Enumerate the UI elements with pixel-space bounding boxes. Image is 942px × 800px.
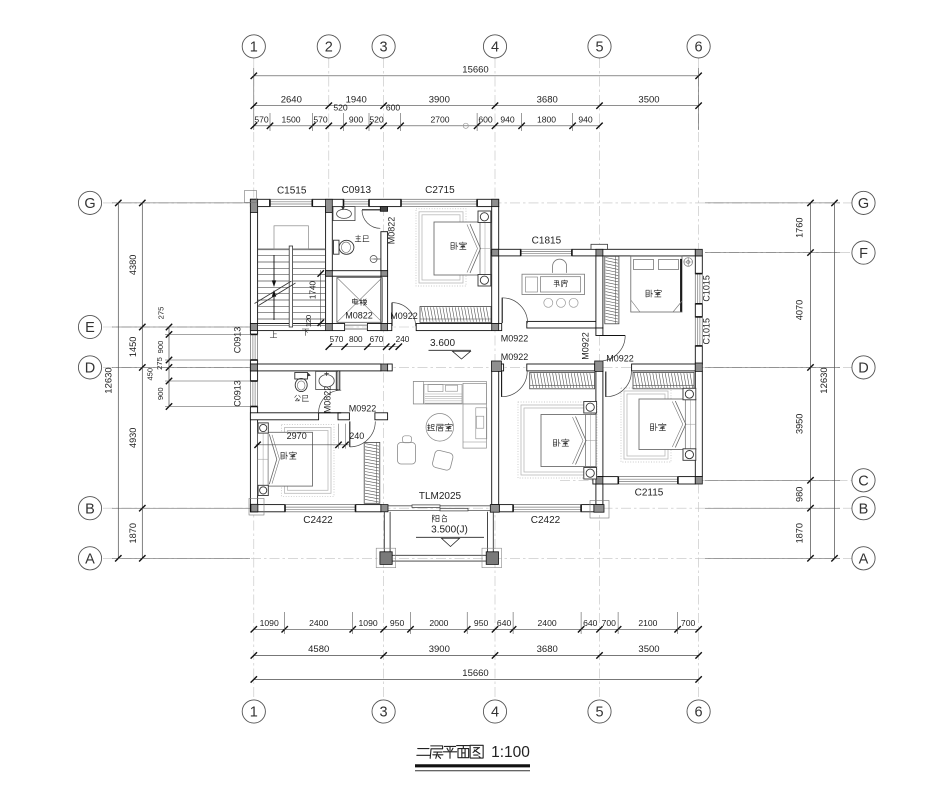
- svg-text:2400: 2400: [309, 618, 328, 628]
- grid axis line F: [470, 252, 852, 254]
- study desk: [522, 274, 585, 294]
- public bath sink basin: [319, 375, 334, 387]
- axis bubble 1 top: [242, 35, 265, 58]
- svg-text:2970: 2970: [287, 431, 307, 441]
- svg-text:TLM2025: TLM2025: [419, 491, 462, 502]
- master bedroom wardrobe: [420, 307, 491, 323]
- column axis5-F: [596, 249, 603, 256]
- axis bubble 5 top: [588, 35, 611, 58]
- left dim line overall 12630: [117, 203, 119, 558]
- bedroom1 bed: [258, 432, 313, 486]
- study chair: [553, 259, 567, 273]
- svg-text:C: C: [858, 474, 868, 490]
- axis bubble 5 bottom: [588, 700, 611, 723]
- svg-text:M0822: M0822: [387, 217, 397, 245]
- svg-text:3500: 3500: [638, 644, 659, 655]
- svg-text:570: 570: [330, 335, 344, 344]
- axis bubble 3 bottom: [372, 700, 395, 723]
- bedroom3 bed: [541, 415, 596, 467]
- door frame tab master bath: [380, 207, 387, 212]
- svg-text:1760: 1760: [795, 217, 805, 237]
- svg-text:D: D: [85, 361, 95, 377]
- east wall bedroom lower: [695, 371, 702, 477]
- wall on axis D east segment 1: [527, 364, 595, 371]
- wall on axis 5 lower: [596, 484, 603, 505]
- svg-text:C1015: C1015: [702, 275, 712, 302]
- svg-text:3680: 3680: [537, 644, 558, 655]
- top dim line axis spacings: [254, 105, 699, 107]
- svg-text:B: B: [859, 501, 869, 517]
- svg-text:1090: 1090: [359, 618, 378, 628]
- public bath toilet: [295, 373, 308, 380]
- stair break line: [255, 281, 292, 304]
- window C1015 lower: [695, 317, 702, 346]
- axis bubble 4 bottom: [483, 700, 506, 723]
- bedroom1 wardrobe: [364, 442, 380, 503]
- column elevator north-east: [381, 271, 388, 277]
- title underline: [415, 764, 530, 767]
- svg-text:4930: 4930: [128, 428, 138, 448]
- master bath east wall: [381, 232, 388, 331]
- balcony south railing: [384, 554, 493, 556]
- svg-text:4070: 4070: [795, 300, 805, 320]
- bath sink faucet: [342, 206, 345, 210]
- svg-text:G: G: [84, 196, 95, 212]
- svg-text:670: 670: [370, 335, 384, 344]
- bedroom1 interior dim 2970: [256, 444, 349, 446]
- wall on axis D east segment 2: [632, 364, 696, 371]
- grid axis line 4: [494, 58, 496, 700]
- svg-text:M0922: M0922: [501, 352, 529, 362]
- stair dim 1740: [320, 270, 322, 327]
- svg-text:940: 940: [578, 114, 593, 124]
- stair up arrow: [273, 255, 275, 281]
- axis bubble 1 bottom: [242, 700, 265, 723]
- bath sink basin: [337, 209, 352, 218]
- column axis4-D: [492, 361, 502, 371]
- door frame stub axis D at axis4: [499, 364, 504, 371]
- bedroom3 label: [553, 439, 560, 446]
- south wall axis B segment 1: [250, 505, 285, 512]
- svg-text:600: 600: [478, 114, 493, 124]
- svg-text:520: 520: [333, 103, 348, 113]
- svg-text:1870: 1870: [795, 523, 805, 543]
- sliding door TLM2025 track: [388, 505, 490, 507]
- svg-text:15660: 15660: [462, 668, 488, 679]
- grid axis line E: [103, 326, 500, 328]
- bedroom3 door M0922: [501, 372, 503, 397]
- wall on axis 4 lower: [492, 371, 499, 505]
- master bedroom door M0922: [391, 303, 393, 326]
- master bedroom south wall: [416, 324, 502, 331]
- ottoman: [432, 450, 454, 471]
- svg-text:C2422: C2422: [531, 515, 561, 526]
- elevator north wall: [326, 271, 388, 277]
- bedroom2 label: [646, 290, 653, 297]
- column axis1-E: [250, 324, 257, 331]
- public bath sink counter: [316, 371, 338, 389]
- stair label up: [270, 331, 277, 337]
- grid axis line B: [103, 507, 852, 509]
- axis bubble A left: [78, 547, 101, 570]
- svg-text:M0822: M0822: [345, 311, 373, 321]
- wall on axis 5 upper: [596, 256, 603, 328]
- svg-text:3.600: 3.600: [430, 338, 455, 349]
- window C0913 north: [344, 199, 370, 206]
- axis bubble 4 top: [483, 35, 506, 58]
- svg-text:C0913: C0913: [233, 380, 243, 407]
- south wall axis B segment 3: [499, 505, 513, 512]
- stair label down: [302, 329, 309, 335]
- svg-text:2700: 2700: [430, 114, 449, 124]
- svg-text:1740: 1740: [309, 280, 318, 299]
- svg-text:240: 240: [349, 431, 364, 441]
- svg-text:940: 940: [500, 114, 515, 124]
- svg-text:6: 6: [695, 40, 703, 56]
- svg-text:450: 450: [146, 368, 155, 381]
- bedroom3 wardrobe: [530, 372, 595, 388]
- window C1815: [521, 249, 572, 256]
- column axis6-D: [695, 363, 702, 371]
- bedroom2 bed: [631, 256, 682, 312]
- column axis6-F: [695, 249, 702, 256]
- corridor dim 570-800-670-240: [329, 346, 399, 348]
- wall on axis 4 upper: [492, 207, 499, 324]
- svg-text:2400: 2400: [538, 618, 557, 628]
- axis bubble F right: [852, 241, 875, 264]
- column axis4-F: [492, 249, 499, 256]
- column axis4-B: [490, 505, 499, 513]
- svg-text:B: B: [85, 501, 95, 517]
- svg-text:3.500(J): 3.500(J): [431, 525, 468, 536]
- east wall on axis 6 pieces: [695, 256, 702, 274]
- column axis4-E: [492, 324, 499, 331]
- svg-text:1: 1: [250, 705, 258, 721]
- bedroom3 rug: [518, 402, 597, 478]
- svg-text:3900: 3900: [429, 644, 450, 655]
- top dim line overall 15660: [254, 75, 699, 77]
- left small dim line: [168, 327, 170, 407]
- svg-text:640: 640: [497, 618, 512, 628]
- master bedroom nightstand south: [478, 275, 491, 287]
- bedroom1 label: [281, 452, 288, 459]
- window C2422 west: [285, 505, 356, 512]
- axis bubble 6 bottom: [687, 700, 710, 723]
- axis bubble G right: [852, 191, 875, 214]
- svg-text:1940: 1940: [346, 94, 367, 105]
- svg-text:240: 240: [396, 335, 410, 344]
- wall on axis D bath top: [250, 364, 381, 371]
- svg-text:1090: 1090: [260, 618, 279, 628]
- axis bubble G left: [78, 191, 101, 214]
- svg-text:E: E: [85, 320, 95, 336]
- study label: [554, 280, 560, 287]
- master bedroom nightstand north: [478, 211, 491, 223]
- svg-text:C2715: C2715: [425, 185, 455, 196]
- svg-text:M0922: M0922: [390, 311, 418, 321]
- bedroom2 ceiling fan: [684, 258, 693, 267]
- svg-text:640: 640: [583, 618, 598, 628]
- svg-text:4580: 4580: [308, 644, 329, 655]
- svg-text:M0922: M0922: [606, 354, 634, 364]
- window C0913 west upper: [250, 334, 257, 360]
- column axis1-G: [250, 199, 257, 212]
- svg-text:900: 900: [349, 114, 364, 124]
- window C2115: [618, 477, 678, 484]
- svg-text:1500: 1500: [281, 114, 300, 124]
- bath shower head: [370, 256, 377, 263]
- svg-text:2100: 2100: [638, 618, 657, 628]
- window C1015 upper: [695, 274, 702, 304]
- bottom dim line axis spacings: [254, 654, 699, 656]
- svg-text:1:100: 1:100: [491, 744, 530, 761]
- master bedroom label: [451, 242, 458, 249]
- column axis5-B: [594, 505, 604, 513]
- grid axis line A: [103, 557, 852, 559]
- svg-text:M0922: M0922: [581, 332, 591, 360]
- grid axis line C: [560, 479, 852, 481]
- bath sink alcove wall: [336, 371, 340, 390]
- svg-text:3900: 3900: [429, 94, 450, 105]
- column axis2-E: [326, 324, 333, 331]
- living room label circle: [426, 414, 454, 442]
- stair down arrow: [273, 296, 275, 320]
- axis E wall segment at corridor: [367, 324, 391, 331]
- bath toilet tank: [334, 240, 340, 254]
- bedroom1 door M0922: [349, 421, 351, 447]
- svg-text:900: 900: [156, 387, 165, 400]
- svg-text:F: F: [859, 246, 868, 262]
- public bath door M0822: [319, 412, 342, 414]
- bedroom2 wardrobe: [605, 256, 619, 324]
- column axis1-B: [251, 504, 258, 512]
- column bath wall-E: [381, 324, 388, 331]
- axis bubble 2 top: [317, 35, 340, 58]
- small circle marker on dim line: [463, 123, 468, 128]
- column axis4-G: [492, 199, 499, 206]
- svg-text:275: 275: [157, 307, 166, 320]
- svg-text:950: 950: [474, 618, 489, 628]
- master bath door M0822: [362, 209, 380, 211]
- window C2715: [401, 199, 477, 206]
- stair treads: [258, 255, 325, 257]
- bedroom1 rug: [282, 425, 335, 497]
- svg-text:2000: 2000: [429, 618, 448, 628]
- right dim line spacings: [810, 203, 812, 558]
- south stair wall on axis E: [250, 324, 344, 331]
- column axis3-D: [381, 364, 388, 371]
- grid axis line G: [103, 202, 852, 204]
- wall on axis C segment east: [678, 477, 695, 484]
- svg-text:D: D: [858, 361, 868, 377]
- study south wall: [527, 321, 596, 328]
- corner marker axis1-G: [245, 191, 257, 203]
- svg-text:700: 700: [681, 618, 696, 628]
- grid axis line 5: [599, 58, 601, 700]
- axis bubble B left: [78, 497, 101, 520]
- svg-text:G: G: [858, 196, 869, 212]
- elevator door: [345, 324, 368, 326]
- wall on axis 5 door stub: [596, 328, 603, 336]
- axis bubble 6 top: [687, 35, 710, 58]
- armchair: [398, 443, 416, 465]
- bedroom4 nightstand north: [683, 388, 696, 400]
- svg-text:2: 2: [325, 40, 333, 56]
- svg-text:1870: 1870: [128, 523, 138, 543]
- column axis2-G: [326, 199, 333, 212]
- column axis1-D: [250, 364, 257, 371]
- svg-text:4: 4: [491, 40, 499, 56]
- svg-text:C0913: C0913: [233, 327, 243, 354]
- master bedroom bed: [434, 222, 491, 275]
- balcony corner post east: [482, 548, 502, 568]
- window C2422 east: [513, 505, 581, 512]
- north wall on axis G segment 3: [369, 199, 401, 206]
- top dim line detail: [254, 125, 600, 127]
- column axis5-C: [596, 477, 603, 484]
- svg-text:12630: 12630: [819, 367, 830, 393]
- grid axis line D: [103, 366, 852, 368]
- stair handrail: [289, 246, 292, 327]
- svg-text:12630: 12630: [104, 367, 115, 393]
- svg-text:C1515: C1515: [277, 186, 307, 197]
- chimney flue on axis F: [591, 244, 608, 249]
- balcony east railing: [487, 512, 489, 553]
- wall on axis C segment west: [593, 477, 618, 484]
- axis bubble D right: [852, 356, 875, 379]
- svg-text:5: 5: [595, 40, 603, 56]
- elevator label: [352, 298, 358, 304]
- wall on axis 2 stair-bath: [326, 207, 333, 324]
- north wall on axis F segment 1: [492, 249, 521, 256]
- column axis3-B: [381, 505, 388, 512]
- stair landing edge: [274, 226, 308, 250]
- svg-text:520: 520: [369, 114, 384, 124]
- master bedroom rug: [416, 209, 466, 286]
- svg-text:4: 4: [491, 705, 499, 721]
- left dim line spacings: [141, 203, 143, 558]
- bedroom3 nightstand south: [584, 468, 597, 480]
- bath toilet bowl: [339, 240, 354, 254]
- svg-text:6: 6: [695, 705, 703, 721]
- level mark 3.500 balcony: [432, 515, 439, 522]
- bedroom4 door M0922: [605, 372, 607, 397]
- svg-text:3: 3: [380, 705, 388, 721]
- public bath south wall: [250, 413, 318, 420]
- axis bubble C right: [852, 469, 875, 492]
- right dim line overall 12630: [834, 203, 836, 558]
- svg-text:A: A: [859, 552, 869, 568]
- column axis5-D: [595, 361, 603, 371]
- axis bubble D left: [78, 356, 101, 379]
- grid axis line 2: [328, 58, 330, 330]
- svg-text:3: 3: [380, 40, 388, 56]
- bedroom1 nightstand south: [258, 485, 268, 495]
- window C0913 west lower: [250, 381, 257, 407]
- tv cabinet wall: [413, 381, 486, 404]
- bedroom1 north wall corner: [375, 413, 388, 420]
- window C1515: [270, 199, 312, 206]
- axis bubble A right: [852, 547, 875, 570]
- north wall on axis G segment 4: [477, 199, 499, 206]
- balcony west railing: [383, 512, 385, 553]
- svg-text:1800: 1800: [537, 114, 556, 124]
- bedroom4 label: [650, 423, 657, 430]
- grid axis line 3: [383, 58, 385, 700]
- balcony corner post west: [376, 548, 396, 568]
- bath sink counter: [333, 207, 355, 221]
- west wall on axis 1: [250, 199, 257, 334]
- svg-text:M0822: M0822: [323, 386, 333, 414]
- svg-text:800: 800: [349, 335, 363, 344]
- grid axis line 1: [253, 58, 255, 700]
- svg-text:3950: 3950: [795, 414, 805, 434]
- svg-text:900: 900: [156, 341, 165, 354]
- svg-text:3680: 3680: [537, 94, 558, 105]
- study guest chairs: [544, 298, 553, 307]
- bottom dim line detail: [254, 628, 699, 630]
- bedroom4 rug: [621, 388, 671, 462]
- public bath label: [295, 395, 301, 401]
- svg-text:C2115: C2115: [635, 488, 664, 499]
- svg-text:3500: 3500: [638, 94, 659, 105]
- svg-text:120: 120: [304, 315, 313, 327]
- north wall on axis G west segment: [250, 199, 270, 206]
- corner marker axis1-B: [249, 499, 264, 516]
- bedroom1 nightstand north: [258, 423, 268, 433]
- svg-text:M0922: M0922: [349, 404, 377, 414]
- grid axis line 6: [698, 58, 700, 700]
- north wall on axis G segment 2: [312, 199, 343, 206]
- svg-text:570: 570: [254, 114, 269, 124]
- bedroom3 nightstand north: [584, 402, 597, 414]
- title text: [417, 749, 430, 756]
- bedroom1 north wall segment: [338, 413, 349, 420]
- bedroom4 nightstand south: [683, 449, 696, 461]
- svg-text:600: 600: [386, 103, 401, 113]
- south wall axis B segment 2: [356, 505, 381, 512]
- svg-text:C1015: C1015: [702, 318, 712, 345]
- column axis6-C: [695, 477, 702, 484]
- master bath label: [355, 235, 361, 242]
- svg-text:950: 950: [390, 618, 405, 628]
- svg-text:1450: 1450: [128, 337, 138, 357]
- column elevator north-west: [326, 271, 333, 277]
- svg-text:15660: 15660: [462, 65, 488, 76]
- north wall on axis F segment 2: [572, 249, 695, 256]
- elevator car: [337, 278, 382, 323]
- study door M0922: [501, 298, 503, 323]
- south wall axis B segment 4: [581, 505, 594, 512]
- bedroom4 wardrobe: [633, 372, 694, 388]
- bedroom2 door M0922: [600, 335, 625, 337]
- svg-text:C0913: C0913: [342, 185, 372, 196]
- bedroom4 bed: [639, 399, 696, 450]
- svg-text:C2422: C2422: [303, 515, 333, 526]
- svg-text:C1815: C1815: [532, 236, 562, 247]
- svg-text:4380: 4380: [128, 255, 138, 275]
- axis bubble E left: [78, 315, 101, 338]
- svg-text:1: 1: [250, 40, 258, 56]
- svg-text:M0922: M0922: [501, 334, 529, 344]
- sofa group: [463, 383, 486, 448]
- axis bubble B right: [852, 497, 875, 520]
- svg-text:570: 570: [313, 114, 328, 124]
- svg-text:5: 5: [595, 705, 603, 721]
- wall on axis D stub: [388, 364, 393, 371]
- bottom dim line overall 15660: [254, 678, 699, 680]
- wall on axis 5 mid: [596, 371, 603, 477]
